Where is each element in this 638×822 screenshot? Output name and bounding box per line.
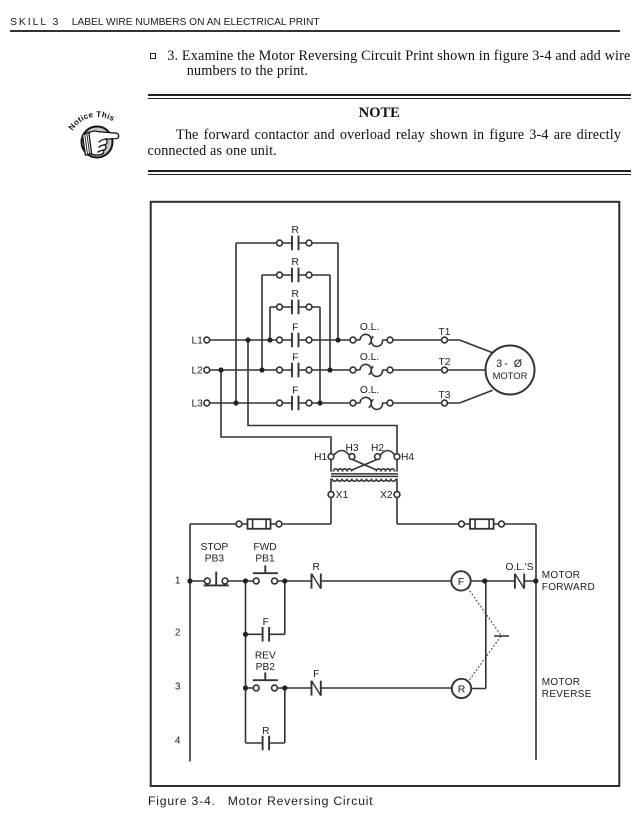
svg-text:T2: T2	[439, 357, 451, 368]
svg-text:O.L.: O.L.	[360, 322, 379, 333]
svg-text:2: 2	[175, 627, 181, 638]
svg-text:T3: T3	[439, 390, 451, 401]
svg-text:REVERSE: REVERSE	[542, 689, 592, 700]
svg-text:H2: H2	[371, 443, 384, 454]
svg-text:L3: L3	[191, 399, 203, 410]
svg-text:O.L.: O.L.	[360, 352, 379, 363]
svg-text:O.L.: O.L.	[360, 385, 379, 396]
svg-text:H1: H1	[314, 452, 327, 463]
svg-text:F: F	[263, 617, 269, 628]
svg-text:R: R	[458, 683, 466, 695]
svg-text:4: 4	[175, 736, 181, 747]
svg-text:MOTOR: MOTOR	[542, 677, 581, 688]
svg-text:STOP: STOP	[201, 542, 229, 553]
svg-text:L2: L2	[191, 366, 203, 377]
svg-text:REV: REV	[255, 651, 276, 662]
svg-text:F: F	[292, 322, 298, 333]
svg-text:H3: H3	[345, 443, 358, 454]
svg-text:X2: X2	[380, 490, 393, 501]
svg-text:PB1: PB1	[255, 553, 275, 564]
svg-text:FWD: FWD	[253, 542, 276, 553]
svg-text:MOTOR: MOTOR	[493, 370, 528, 381]
svg-text:F: F	[313, 669, 319, 680]
svg-text:F: F	[458, 576, 464, 588]
svg-text:R: R	[262, 726, 269, 737]
svg-text:MOTOR: MOTOR	[542, 570, 581, 581]
svg-text:F: F	[292, 352, 298, 363]
svg-text:O.L.'S: O.L.'S	[506, 562, 534, 573]
svg-text:R: R	[292, 257, 299, 268]
svg-text:F: F	[292, 385, 298, 396]
svg-text:PB2: PB2	[256, 662, 276, 673]
svg-text:3: 3	[175, 681, 181, 692]
svg-text:FORWARD: FORWARD	[542, 582, 595, 593]
svg-text:T1: T1	[439, 327, 451, 338]
svg-text:R: R	[313, 562, 320, 573]
svg-text:H4: H4	[401, 452, 414, 463]
svg-text:X1: X1	[336, 490, 349, 501]
svg-text:R: R	[292, 225, 299, 236]
svg-text:PB3: PB3	[205, 553, 225, 564]
svg-text:R: R	[292, 289, 299, 300]
svg-text:L1: L1	[191, 336, 203, 347]
svg-text:1: 1	[175, 576, 181, 587]
